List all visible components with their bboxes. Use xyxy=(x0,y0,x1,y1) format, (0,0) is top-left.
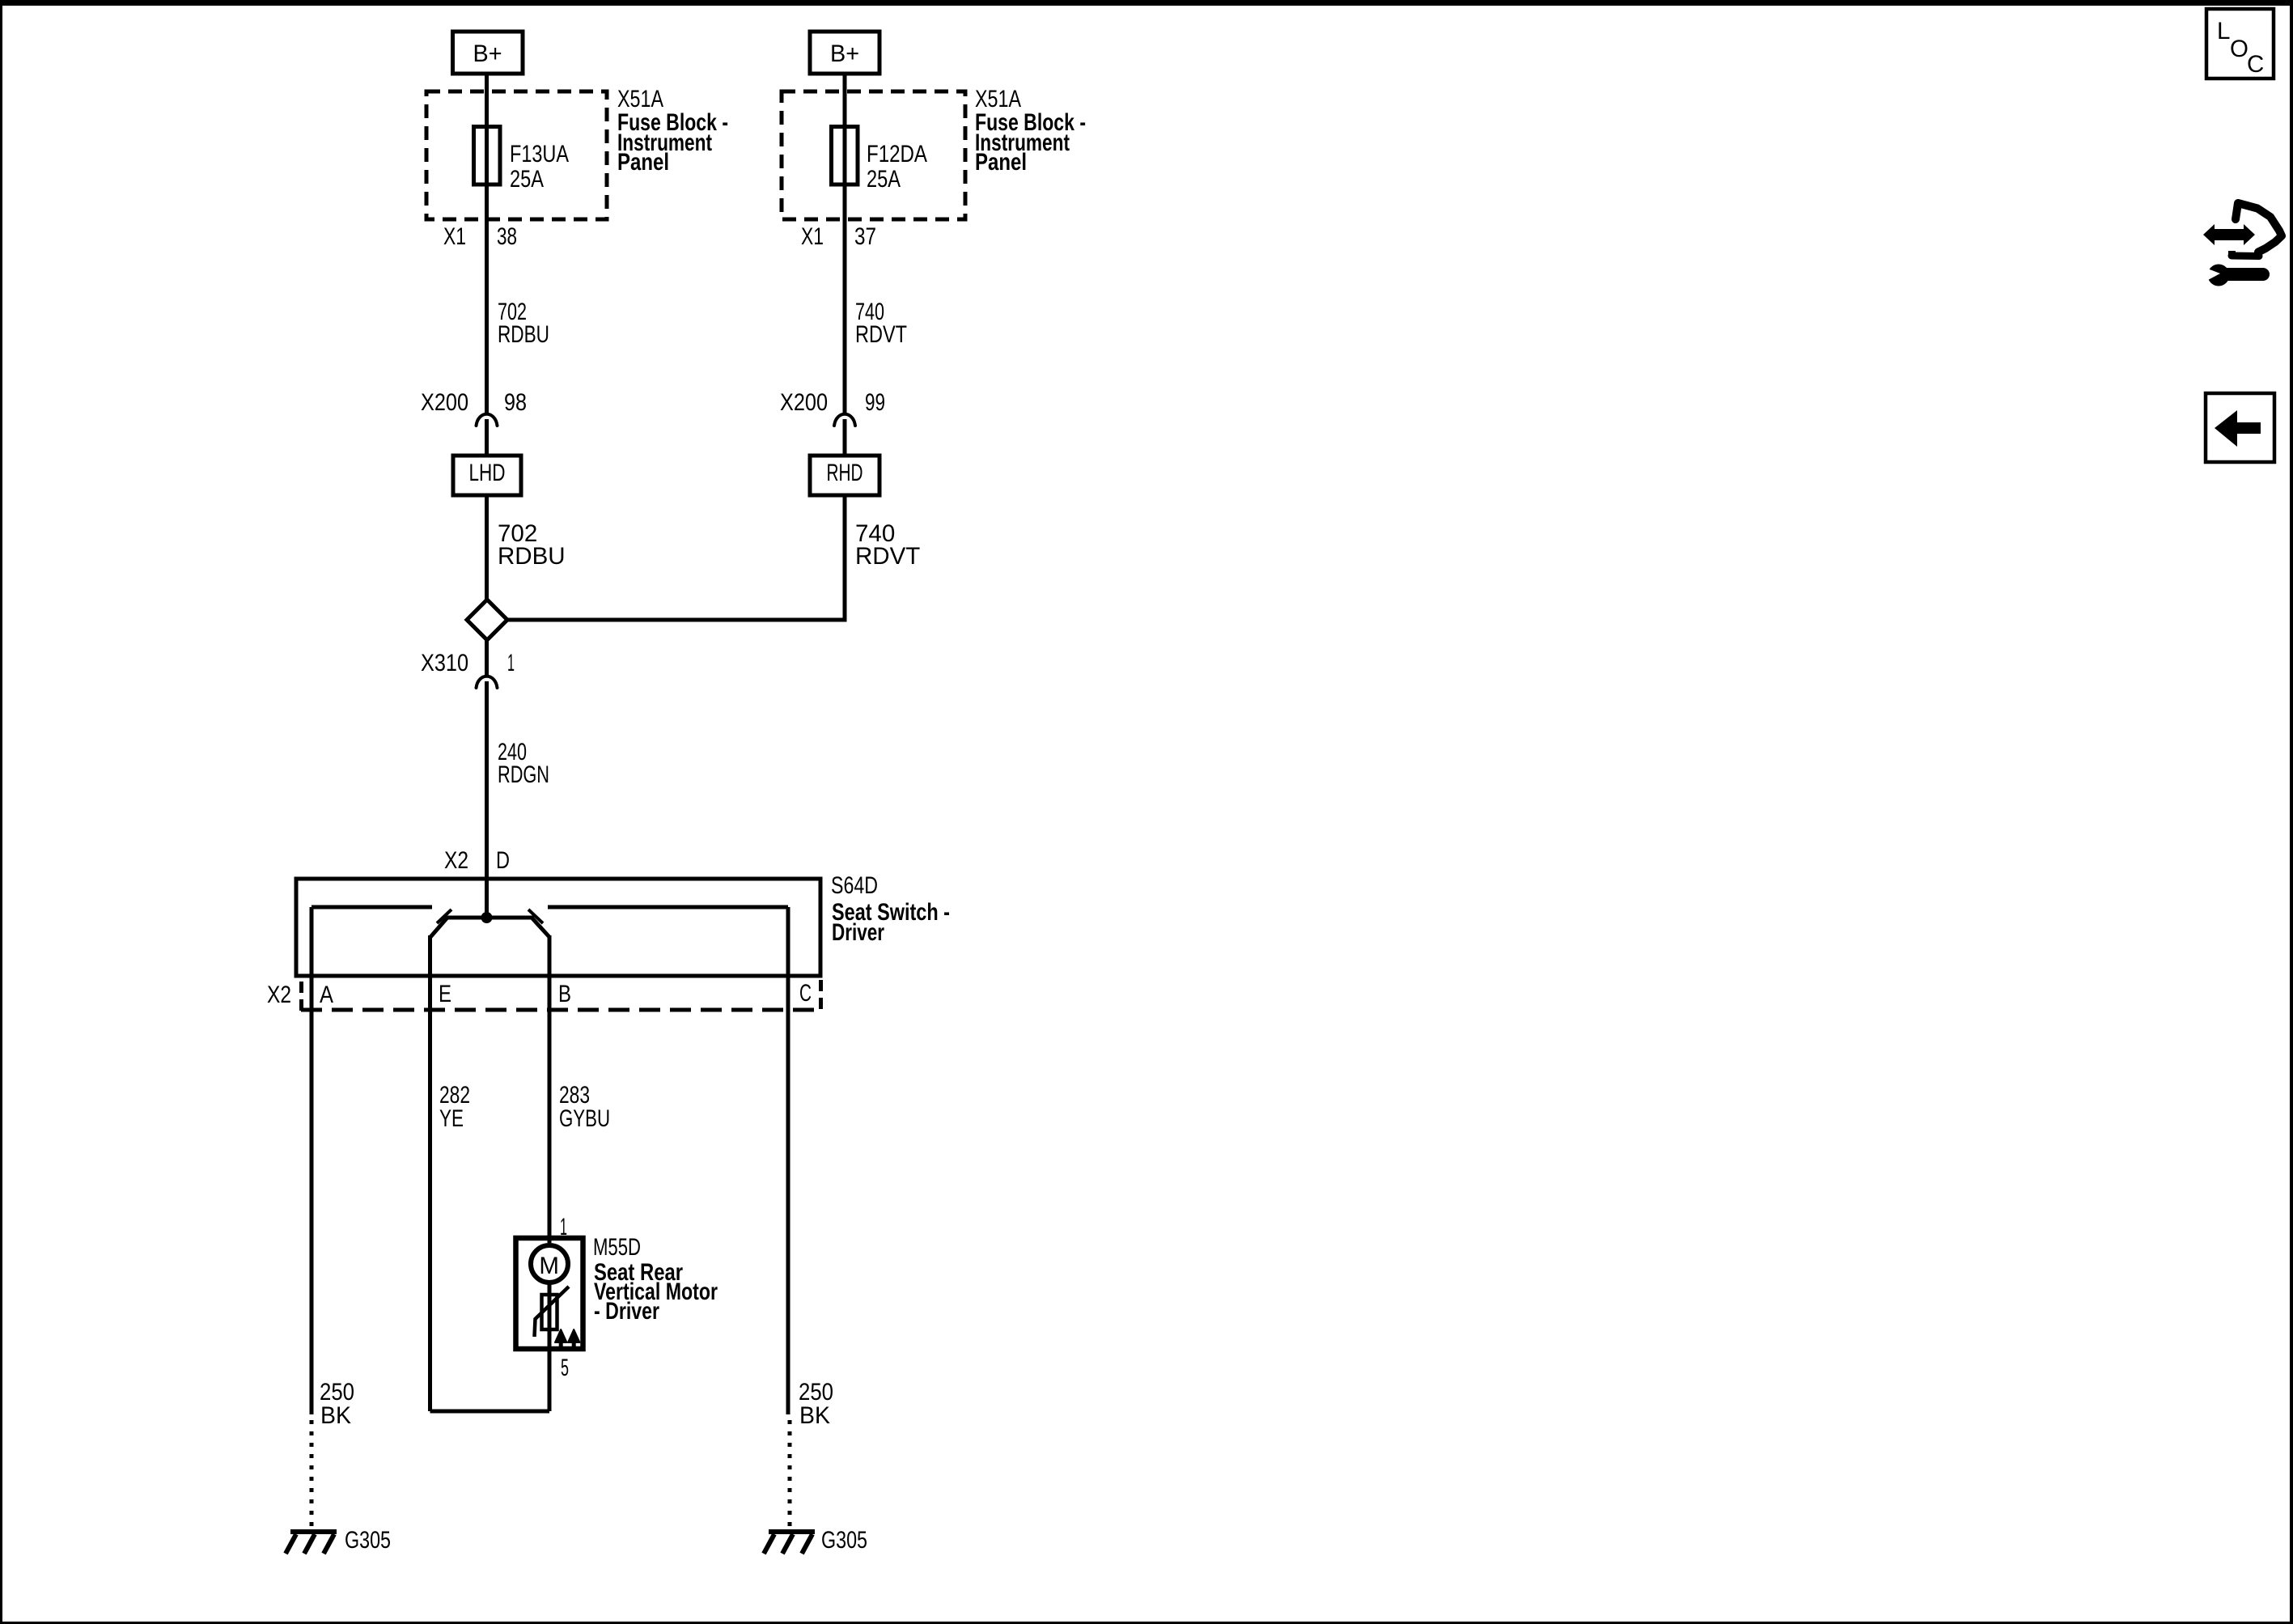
motor M55D box xyxy=(516,1238,583,1349)
power symbol B+ (left) xyxy=(453,32,523,74)
wire loop: pin E bottom to motor pin 5 xyxy=(430,1410,550,1414)
svg-text:C: C xyxy=(2247,51,2264,78)
svg-text:X1: X1 xyxy=(443,223,466,250)
breaker triangles xyxy=(555,1329,580,1349)
svg-text:98: 98 xyxy=(504,389,527,416)
wire pin C to ground (solid part) xyxy=(786,907,790,1414)
wire: X200 to LHD xyxy=(485,419,489,456)
svg-text:X2: X2 xyxy=(267,982,291,1008)
svg-text:BK: BK xyxy=(799,1402,830,1429)
svg-text:Panel: Panel xyxy=(617,149,669,176)
connector label X1 pin 38 xyxy=(443,223,517,250)
wire: splice to connector X310 xyxy=(485,640,489,676)
splice diamond node xyxy=(467,600,507,640)
svg-text:Panel: Panel xyxy=(975,149,1027,176)
ground G305 left xyxy=(286,1527,391,1554)
svg-text:RHD: RHD xyxy=(827,460,863,486)
switch common junction dot xyxy=(481,912,493,923)
svg-text:5: 5 xyxy=(561,1355,569,1381)
motor symbol circle M xyxy=(531,1245,568,1283)
connector X2 dashed row (pins A E B C) xyxy=(267,980,821,1011)
svg-text:E: E xyxy=(439,981,451,1007)
seat switch S64D box xyxy=(296,879,820,976)
fuse block X51A dashed box (left) xyxy=(426,91,607,219)
svg-text:37: 37 xyxy=(854,223,876,250)
wire: B+ right through fuse F12DA to connector X200 xyxy=(843,74,847,414)
wire label 282 YE xyxy=(439,1082,470,1132)
switch bus bar right (to pin C) xyxy=(548,905,788,910)
svg-text:25A: 25A xyxy=(867,166,901,193)
switch arm chamfer right to pin B xyxy=(532,918,549,937)
wire label 250 BK (left) xyxy=(320,1379,354,1429)
svg-text:A: A xyxy=(320,982,333,1008)
thermal protector PTC rectangle xyxy=(535,1287,570,1337)
svg-text:L: L xyxy=(2217,18,2230,45)
svg-text:38: 38 xyxy=(497,223,517,250)
connector label X2 pin D xyxy=(444,847,510,874)
switch arm chamfer left to pin E xyxy=(430,918,447,937)
option box RHD xyxy=(810,456,879,495)
label X51A Fuse Block - Instrument Panel (right) xyxy=(975,86,1086,176)
svg-text:M55D: M55D xyxy=(593,1234,641,1261)
navigation icon: double arrow with route and wrench xyxy=(2203,203,2282,286)
back arrow icon xyxy=(2206,393,2274,462)
svg-text:X310: X310 xyxy=(421,650,468,676)
svg-text:99: 99 xyxy=(865,389,885,416)
wire label 283 GYBU xyxy=(559,1082,610,1132)
svg-text:X200: X200 xyxy=(421,389,468,416)
svg-text:X2: X2 xyxy=(444,847,468,874)
svg-text:X1: X1 xyxy=(801,223,824,250)
svg-text:RDGN: RDGN xyxy=(498,761,549,788)
svg-text:O: O xyxy=(2230,36,2248,62)
svg-text:C: C xyxy=(799,980,812,1007)
wire label 240 RDGN xyxy=(498,739,549,788)
svg-text:LHD: LHD xyxy=(469,460,506,486)
connector label X1 pin 37 xyxy=(801,223,876,250)
in-line connector X310 pin 1 xyxy=(421,650,515,688)
ground G305 right xyxy=(764,1527,867,1554)
svg-text:Driver: Driver xyxy=(832,919,884,946)
svg-text:B: B xyxy=(558,981,571,1007)
svg-text:YE: YE xyxy=(439,1105,464,1132)
svg-text:G305: G305 xyxy=(821,1527,867,1554)
label X51A Fuse Block - Instrument Panel (left) xyxy=(617,86,728,176)
wire label 740 RDVT (upper right) xyxy=(855,299,907,348)
svg-text:X200: X200 xyxy=(780,389,828,416)
wire label 250 BK (right) xyxy=(799,1379,833,1429)
svg-text:GYBU: GYBU xyxy=(559,1105,610,1132)
svg-text:F13UA: F13UA xyxy=(510,141,569,167)
switch bus bar left (to pin A) xyxy=(312,905,432,910)
wire label 740 RDVT (lower right) xyxy=(855,520,920,570)
wire: LHD to splice diamond xyxy=(485,495,489,601)
wire pin E down (282 YE) xyxy=(428,935,432,1411)
fuse F13UA 25A xyxy=(474,127,570,193)
wire: RHD down and left to splice diamond xyxy=(508,495,845,620)
fuse F12DA 25A xyxy=(832,127,928,193)
svg-text:- Driver: - Driver xyxy=(594,1298,659,1325)
wire pin A to ground (solid part) xyxy=(310,907,314,1414)
svg-text:RDBU: RDBU xyxy=(498,543,566,570)
svg-text:25A: 25A xyxy=(510,166,544,193)
svg-text:M: M xyxy=(539,1253,559,1279)
svg-text:1: 1 xyxy=(507,650,515,676)
wire label 702 RDBU (lower left) xyxy=(498,520,566,570)
wire 240 RDGN: X310 to seat switch xyxy=(485,681,489,918)
wire label 702 RDBU (upper left) xyxy=(498,299,549,348)
in-line connector X200 pin 98 xyxy=(421,389,527,426)
wire: X200 to RHD xyxy=(843,419,847,456)
LOC icon (top right) xyxy=(2206,9,2274,78)
svg-text:D: D xyxy=(496,847,510,874)
wire pin B down to motor pin 1 (283 GYBU) xyxy=(548,935,552,1243)
fuse block X51A dashed box (right) xyxy=(782,91,965,219)
dotted ground lead right xyxy=(788,1420,792,1529)
switch contact tick right xyxy=(528,910,543,923)
svg-text:B+: B+ xyxy=(830,40,859,67)
svg-text:BK: BK xyxy=(320,1402,351,1429)
svg-text:RDBU: RDBU xyxy=(498,321,549,348)
svg-text:B+: B+ xyxy=(473,40,502,67)
power symbol B+ (right) xyxy=(810,32,879,74)
svg-text:RDVT: RDVT xyxy=(855,543,920,570)
dotted ground lead left xyxy=(310,1420,314,1529)
option box LHD xyxy=(453,456,521,495)
svg-text:G305: G305 xyxy=(345,1527,391,1554)
switch contact tick left xyxy=(437,910,451,923)
svg-text:S64D: S64D xyxy=(831,872,878,899)
wire motor internal xyxy=(548,1283,552,1411)
svg-text:RDVT: RDVT xyxy=(855,321,907,348)
switch common bar xyxy=(445,916,534,920)
wire: B+ left through fuse F13UA to connector X200 xyxy=(485,74,489,414)
in-line connector X200 pin 99 xyxy=(780,389,885,426)
label S64D Seat Switch - Driver xyxy=(831,872,950,946)
svg-text:F12DA: F12DA xyxy=(867,141,927,167)
label M55D Seat Rear Vertical Motor - Driver xyxy=(593,1234,718,1325)
